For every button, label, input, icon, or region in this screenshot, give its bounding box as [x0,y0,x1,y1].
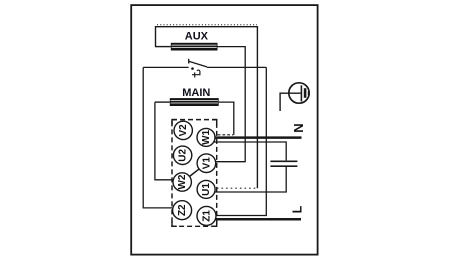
capacitor [270,161,297,166]
svg-text:V1: V1 [201,157,212,170]
svg-text:L: L [291,205,305,213]
stator boundary dotted top edge [157,24,257,26]
svg-text:MAIN: MAIN [182,87,210,99]
wire: aux winding left lead up and top bus to right edge down to stator bottom [156,27,258,189]
stator boundary dotted bottom edge [217,187,258,189]
terminal block dashed box [172,120,217,227]
wire: main winding left lead down to terminal W2 [155,102,172,180]
terminal U1 [197,180,215,198]
wire: W1 to capacitor top plate [213,142,286,160]
wire: capacitor bottom plate to terminal U1 [214,166,286,192]
svg-text:W1: W1 [201,129,212,144]
aux winding [155,43,218,51]
svg-text:Z2: Z2 [177,204,188,216]
earth terminal [280,83,309,111]
svg-text:U1: U1 [201,183,212,196]
wire: aux winding right lead down to terminal V1 [211,47,245,162]
jumper W2 to V1 [189,169,199,177]
main winding [155,98,219,106]
wire: main winding right lead down toward W1 [219,102,234,135]
svg-text:Z1: Z1 [202,210,213,222]
dashed link into terminal W1 [218,134,234,136]
terminal Z1 [197,206,216,225]
svg-text:W2: W2 [177,174,188,189]
terminal W2 [173,173,191,191]
terminal W1 [197,128,215,146]
thermal switch [143,59,266,78]
terminal U2 [173,146,191,164]
terminal V2 [174,121,192,139]
N feed wire thick [215,136,302,139]
svg-text:V2: V2 [178,124,189,137]
terminal Z2 [173,201,192,220]
svg-text:AUX: AUX [185,30,209,42]
wire: switch right side down to terminal Z1 [212,67,266,215]
L feed wire thick [215,218,301,221]
wire: switch left side down to terminal Z2 [143,67,172,208]
terminal box enclosure border [131,5,317,255]
terminal V1 [197,154,216,173]
svg-text:U2: U2 [178,148,189,161]
svg-text:N: N [291,123,306,132]
